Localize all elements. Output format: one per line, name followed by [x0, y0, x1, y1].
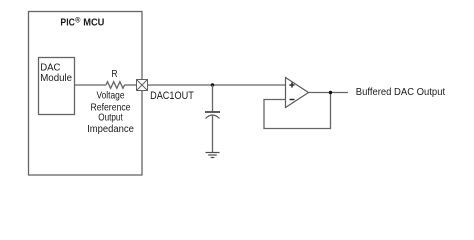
wire resistor to pin [125, 84, 137, 86]
capacitor C1 (polarized) [205, 112, 220, 119]
svg-text:PIC: PIC [60, 18, 75, 29]
wire feedback from inverting input to output [264, 93, 331, 129]
label PIC(R) MCU [60, 15, 104, 28]
wire capacitor to ground [212, 116, 214, 153]
junction node at capacitor tap [211, 83, 214, 86]
wire junction down to capacitor [212, 85, 214, 112]
wire pin to op-amp non-inverting input [148, 84, 286, 86]
label Voltage Reference Output Impedance [87, 91, 134, 135]
svg-text:DAC: DAC [40, 63, 60, 74]
pin DAC1OUT (crossed square) [137, 80, 148, 91]
wire op-amp output [309, 92, 349, 94]
PIC MCU box U1 [29, 12, 143, 176]
svg-text:DAC1OUT: DAC1OUT [150, 90, 194, 102]
wire DAC module output to resistor [75, 84, 107, 86]
svg-text:®: ® [75, 15, 81, 24]
svg-text:Module: Module [40, 73, 72, 84]
label DAC Module [40, 63, 72, 85]
svg-text:Output: Output [98, 113, 123, 124]
DAC Module block [39, 58, 75, 115]
op-amp U2 (unity-gain buffer) [286, 78, 309, 108]
svg-text:MCU: MCU [83, 18, 104, 29]
junction node at op-amp output [329, 91, 332, 94]
ground [206, 153, 220, 158]
svg-text:Buffered DAC Output: Buffered DAC Output [356, 87, 445, 98]
resistor R [106, 82, 125, 89]
svg-text:R: R [111, 69, 117, 80]
svg-text:Impedance: Impedance [87, 124, 134, 135]
svg-text:Voltage: Voltage [97, 91, 125, 102]
